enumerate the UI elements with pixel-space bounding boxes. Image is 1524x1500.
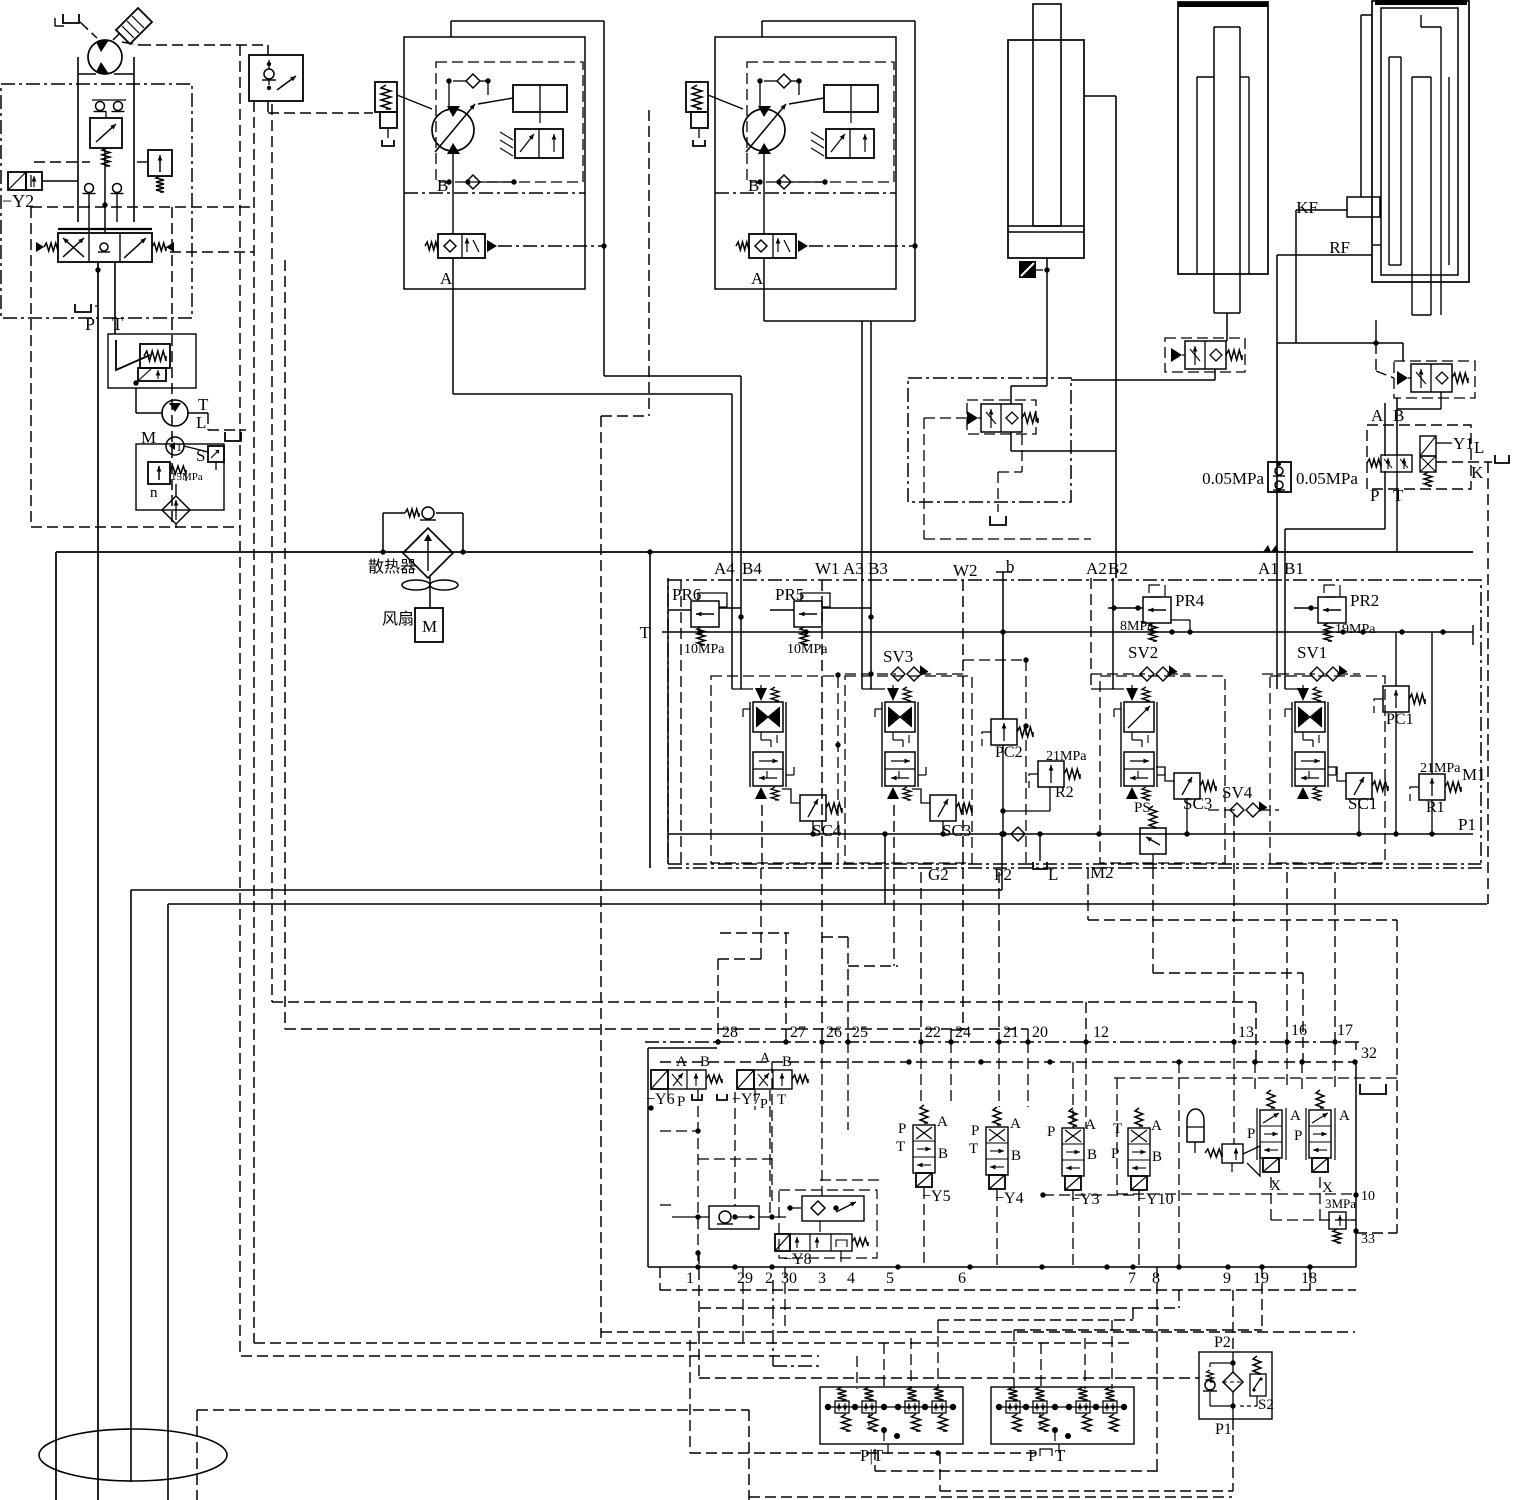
relief R2 xyxy=(1038,761,1064,787)
cylinder C2 body xyxy=(1178,2,1268,274)
svg-text:A2: A2 xyxy=(1086,559,1107,578)
junction dot topleft xyxy=(102,202,107,207)
directional valve DV1 body xyxy=(58,233,152,262)
drop port25 xyxy=(847,937,849,1041)
cylinder C3 stage1 xyxy=(1388,57,1390,265)
drop DV4 xyxy=(761,805,763,868)
wire to VB xyxy=(1402,343,1404,361)
cylinder C1 body xyxy=(1008,40,1084,258)
dashed trunk x285 xyxy=(284,260,286,1029)
pump control valve pump2 xyxy=(826,129,874,158)
svg-text:P: P xyxy=(677,1094,685,1110)
svg-text:B: B xyxy=(1393,406,1404,425)
svg-text:PS: PS xyxy=(1134,800,1151,816)
wire DV2 top feeds xyxy=(1091,688,1124,690)
valve VB under C3 xyxy=(1411,364,1452,392)
svg-text:0.05MPa: 0.05MPa xyxy=(1202,469,1264,488)
pump outer box pump2 xyxy=(715,37,896,289)
check valves lower pair xyxy=(85,184,94,193)
wire DV3 top feeds xyxy=(862,688,885,690)
solenoid valve Y2 xyxy=(8,172,26,190)
manifold bottom check xyxy=(1011,827,1025,841)
svg-text:10MPa: 10MPa xyxy=(684,642,725,657)
svg-text:L: L xyxy=(1048,865,1058,884)
manifold bottom line xyxy=(668,833,1473,835)
svg-text:T: T xyxy=(640,623,651,642)
svg-text:SV4: SV4 xyxy=(1222,783,1253,802)
svg-text:P: P xyxy=(1294,1128,1302,1144)
valve VC xyxy=(981,404,1022,432)
svg-text:M2: M2 xyxy=(1090,863,1114,882)
Y1 reducing valve xyxy=(1381,455,1412,472)
pump check dash-dot line pump1 xyxy=(498,245,604,247)
svg-text:P2: P2 xyxy=(994,865,1012,884)
svg-text:2: 2 xyxy=(765,1270,773,1287)
pilot filter cone xyxy=(116,340,150,370)
svg-text:M: M xyxy=(422,617,437,636)
svg-text:−Y2: −Y2 xyxy=(2,191,34,211)
svg-text:Y1: Y1 xyxy=(1453,434,1474,453)
svg-text:27: 27 xyxy=(790,1024,806,1041)
wire C1 to valve xyxy=(1046,270,1048,386)
svg-text:PR4: PR4 xyxy=(1175,591,1205,610)
wire P vertical long xyxy=(97,262,99,1500)
svg-text:P: P xyxy=(971,1123,979,1139)
svg-text:A3: A3 xyxy=(843,559,864,578)
DV1 spring left xyxy=(44,243,58,251)
gauge circle M xyxy=(166,437,184,455)
wire A1 column xyxy=(1276,343,1278,578)
svg-text:12: 12 xyxy=(1093,1024,1109,1041)
svg-text:P: P xyxy=(760,1097,768,1112)
Y7 wire xyxy=(754,1090,756,1110)
drop port16 xyxy=(1286,872,1288,1041)
svg-text:n: n xyxy=(150,485,158,501)
svg-text:B: B xyxy=(748,176,759,195)
svg-text:W2: W2 xyxy=(953,561,978,580)
pump check valve assembly pump1 xyxy=(438,234,485,258)
cylinder C2 rod xyxy=(1213,27,1215,313)
wire pump2 A down xyxy=(763,289,765,321)
S2 pressure switch xyxy=(1250,1374,1266,1396)
relief 15MPa xyxy=(148,462,170,484)
dash-dot box top-left xyxy=(1,84,192,318)
wire G2 column xyxy=(884,834,886,904)
pump stroke cylinder pump2 xyxy=(824,85,878,112)
svg-text:A: A xyxy=(1010,1116,1021,1132)
bottom dashed box xyxy=(197,1409,749,1411)
svg-text:A: A xyxy=(751,269,764,288)
dashed trunk x240 xyxy=(239,45,241,1356)
sensor box S xyxy=(208,446,224,462)
svg-text:KF: KF xyxy=(1296,198,1318,217)
cylinder C3 stage2 xyxy=(1411,77,1413,315)
junction P below DV1 xyxy=(95,267,100,272)
svg-text:5: 5 xyxy=(886,1270,894,1287)
wire L dashed xyxy=(188,412,208,414)
svg-text:SV3: SV3 xyxy=(883,647,913,666)
wire pump1 A down xyxy=(452,289,454,394)
port b tick xyxy=(996,571,1012,573)
bottom junction xyxy=(935,1450,940,1455)
manifold dash-dot box xyxy=(668,580,1481,868)
dashed DV1 to trunk xyxy=(170,251,254,253)
VC pilot dashes xyxy=(924,417,967,419)
spool valve DV2 xyxy=(1126,688,1138,701)
bottom dashed h y1471 xyxy=(875,1470,1161,1472)
svg-text:A4: A4 xyxy=(714,559,735,578)
wire pilot drain xyxy=(175,484,177,496)
relief PR6 xyxy=(691,601,719,627)
relief PR2 xyxy=(1318,597,1346,623)
wire pilot pump xyxy=(135,388,137,413)
pump stroke cylinder pump1 xyxy=(513,85,567,112)
pilot joystick cluster 1 xyxy=(820,1387,963,1444)
svg-text:9: 9 xyxy=(1223,1270,1231,1287)
svg-text:21MPa: 21MPa xyxy=(1046,749,1087,764)
svg-text:13: 13 xyxy=(1238,1024,1254,1041)
svg-text:3: 3 xyxy=(818,1270,826,1287)
wire RF xyxy=(1277,254,1372,256)
wire left vertical x56 xyxy=(55,552,57,1500)
svg-text:P: P xyxy=(898,1121,906,1137)
svg-text:21: 21 xyxy=(1003,1024,1019,1041)
wire Y1 to B1 xyxy=(1384,471,1386,529)
lower block bottom edge xyxy=(648,1266,1356,1268)
tank 32 xyxy=(1360,1084,1386,1094)
DV4 group dashed box xyxy=(711,676,838,863)
svg-text:P: P xyxy=(1111,1146,1119,1162)
lower block left edge xyxy=(647,1048,649,1267)
pilot relief spring box xyxy=(140,344,170,368)
svg-text:B4: B4 xyxy=(742,559,762,578)
Y6 wire xyxy=(667,1090,669,1098)
DV2 group dashed box xyxy=(1100,676,1225,863)
pilot valve Y4 xyxy=(993,1107,1001,1125)
dashed h y1332 xyxy=(601,1331,1355,1333)
svg-text:T: T xyxy=(896,1139,905,1155)
S2 wires xyxy=(1232,1290,1234,1352)
wire Y1 T xyxy=(1396,471,1398,552)
svg-text:B: B xyxy=(1152,1149,1162,1165)
wire dashed tank to motor xyxy=(80,22,97,38)
drop DV3 xyxy=(893,805,895,868)
manifold L drain xyxy=(1039,834,1041,861)
pilot joystick cluster 2 xyxy=(991,1387,1134,1444)
Y8 dashed box xyxy=(779,1190,877,1258)
wire DV4 top feeds xyxy=(732,688,753,690)
tank symbol VC xyxy=(990,516,1006,525)
svg-text:L: L xyxy=(1474,438,1484,457)
wire VA down xyxy=(1214,369,1216,380)
wire VB down xyxy=(1396,398,1398,456)
dashed bottom of left group xyxy=(31,526,240,528)
compensator SC3a xyxy=(930,795,956,821)
drop port22 xyxy=(920,872,922,1041)
svg-text:B: B xyxy=(782,1054,792,1070)
svg-text:SC4: SC4 xyxy=(812,821,842,840)
lower block inner dashes xyxy=(734,1092,736,1206)
wire x168 vertical xyxy=(167,904,169,1500)
pump top ports pump2 xyxy=(757,78,762,83)
manifold T line xyxy=(662,631,1473,633)
wire W2 column xyxy=(962,580,964,1030)
svg-text:8MPa: 8MPa xyxy=(1120,619,1154,634)
svg-text:B: B xyxy=(437,176,448,195)
svg-text:W1: W1 xyxy=(815,559,840,578)
DV1 left cell arrows xyxy=(63,238,84,257)
box1 check/throttle valve xyxy=(249,55,303,101)
svg-text:P: P xyxy=(85,314,95,334)
Y8 wires xyxy=(819,1221,821,1234)
manifold left solid edge xyxy=(667,578,669,862)
manifold bottom dashdot xyxy=(668,863,1481,865)
svg-text:A: A xyxy=(1339,1108,1350,1124)
svg-text:T: T xyxy=(969,1141,978,1157)
pump left spring actuator pump2 xyxy=(686,82,708,112)
radiator diamond xyxy=(403,528,453,578)
solenoid valve Y6 xyxy=(651,1070,668,1089)
wire VB dashes xyxy=(1375,343,1377,371)
svg-text:0.05MPa: 0.05MPa xyxy=(1296,469,1358,488)
relief valve RV-tl xyxy=(148,150,172,176)
wire VC feed xyxy=(1011,385,1047,387)
cylinder C3 shell2 xyxy=(1381,8,1458,275)
wire dashed motor to box1 xyxy=(122,42,140,45)
check valve pair upper xyxy=(96,102,105,111)
pilot valve Y3 xyxy=(1069,1108,1077,1126)
DV1 spring right xyxy=(152,243,166,251)
tank symbol top-left xyxy=(63,14,79,23)
svg-text:PR5: PR5 xyxy=(775,585,804,604)
dashed drops to cluster1 xyxy=(856,1356,858,1389)
accumulator xyxy=(1187,1109,1204,1142)
lower block top ports xyxy=(715,1039,720,1044)
svg-text:SV2: SV2 xyxy=(1128,643,1158,662)
pump lower ports pump1 xyxy=(446,179,451,184)
wire P2 column xyxy=(1001,834,1003,890)
svg-text:7: 7 xyxy=(1128,1270,1136,1287)
wire dashed box1 down xyxy=(267,101,269,113)
wire main return y552 xyxy=(56,551,1473,553)
S2 block box xyxy=(1199,1352,1272,1419)
spool valve DV1 xyxy=(1297,688,1309,701)
svg-text:22: 22 xyxy=(925,1024,941,1041)
svg-text:M1: M1 xyxy=(1462,765,1486,784)
svg-text:6: 6 xyxy=(958,1270,966,1287)
compensator SC4 xyxy=(800,795,826,821)
pump control valve pump1 xyxy=(515,129,563,158)
drop SV4 port13 xyxy=(1233,815,1235,1041)
svg-text:−Y3: −Y3 xyxy=(1071,1191,1100,1208)
lower block inner hdashes xyxy=(660,1130,698,1132)
svg-text:风扇: 风扇 xyxy=(382,610,414,628)
relief PR5 xyxy=(794,601,822,627)
tilted actuator on motor xyxy=(116,8,152,44)
compensator PC2 xyxy=(991,719,1017,745)
radiator bypass xyxy=(382,513,384,552)
svg-text:R2: R2 xyxy=(1055,784,1074,801)
svg-text:15MPa: 15MPa xyxy=(171,471,203,483)
cylinder C1 damper box xyxy=(1019,261,1036,278)
wire x1116 long xyxy=(1115,96,1117,578)
svg-text:A: A xyxy=(1290,1108,1301,1124)
svg-text:T: T xyxy=(198,395,209,414)
svg-text:−Y7: −Y7 xyxy=(732,1091,761,1108)
lower bus dots xyxy=(906,1059,911,1064)
wire A2 column xyxy=(1090,578,1092,689)
svg-text:A: A xyxy=(1151,1118,1162,1134)
pilot valve X1 xyxy=(1267,1090,1275,1108)
svg-text:28: 28 xyxy=(722,1024,738,1041)
svg-text:B: B xyxy=(938,1146,948,1162)
motor M pilot circle xyxy=(88,40,122,74)
drop PS xyxy=(1152,868,1154,973)
svg-text:24: 24 xyxy=(955,1024,971,1041)
dashed below ports xyxy=(742,1267,744,1343)
svg-text:K: K xyxy=(1471,463,1484,482)
dashed below block 3 xyxy=(938,1319,1133,1321)
dashed inner x681 xyxy=(680,580,682,868)
wire VC drain xyxy=(1010,432,1012,451)
svg-text:PC1: PC1 xyxy=(1386,711,1414,728)
relief PR4 xyxy=(1143,597,1171,623)
pump A port line pump2 xyxy=(763,151,765,234)
lower block top bus xyxy=(645,1041,1360,1043)
pump top line pump2 xyxy=(762,20,915,22)
drop port20 xyxy=(1027,1029,1029,1041)
cylinder C1 rod xyxy=(1033,4,1061,226)
svg-text:3MPa: 3MPa xyxy=(1325,1196,1356,1211)
svg-text:26: 26 xyxy=(826,1024,842,1041)
svg-text:R1: R1 xyxy=(1426,799,1445,816)
lower block dashed bus xyxy=(660,1061,1355,1063)
compensator SC3b xyxy=(1174,773,1200,799)
flow control valve xyxy=(90,118,122,148)
svg-text:P1: P1 xyxy=(1458,815,1476,834)
svg-text:8: 8 xyxy=(1152,1270,1160,1287)
fan blades xyxy=(402,580,430,590)
dashed h y1002 xyxy=(272,1001,1256,1003)
cylinder C1 piston lines xyxy=(1008,225,1084,227)
DV1 group dashed box xyxy=(1270,676,1385,863)
wire y343 header xyxy=(1277,342,1403,344)
pump check dash-dot line pump2 xyxy=(809,245,915,247)
svg-text:b: b xyxy=(1006,557,1015,576)
svg-text:T: T xyxy=(112,314,123,334)
svg-text:P1: P1 xyxy=(1215,1421,1232,1438)
drop P2 xyxy=(998,872,1000,1041)
spool valve DV4 xyxy=(755,688,767,701)
svg-text:10: 10 xyxy=(1361,1189,1375,1204)
cylinder C3 outer xyxy=(1372,1,1469,282)
svg-text:A: A xyxy=(937,1114,948,1130)
wire dashed box1 to pump1 spring xyxy=(268,112,373,114)
dashed box left edge xyxy=(30,207,32,527)
svg-text:RF: RF xyxy=(1329,238,1350,257)
tank symbol L xyxy=(225,432,241,441)
port 10 xyxy=(1353,1192,1358,1197)
dashed h y1378 xyxy=(699,1377,1199,1379)
dashed h y1343 xyxy=(254,1342,1133,1344)
spring under flow valve xyxy=(102,148,110,166)
A1 mark xyxy=(1263,545,1271,552)
wire B1 into DV1 xyxy=(1284,578,1286,689)
pump casing verticals xyxy=(77,57,79,222)
pump separation dash-dot pump1 xyxy=(404,192,585,194)
right group dashed box xyxy=(1114,1077,1397,1079)
fan motor box xyxy=(415,608,443,642)
tank ellipse bottom-left xyxy=(39,1429,227,1481)
wire B2 column xyxy=(1112,578,1114,689)
svg-text:PR6: PR6 xyxy=(672,585,701,604)
svg-text:25: 25 xyxy=(852,1024,868,1041)
svg-text:19: 19 xyxy=(1253,1270,1269,1287)
svg-text:A: A xyxy=(676,1054,687,1070)
wire C1 right xyxy=(1084,95,1116,97)
check valve CK1 xyxy=(709,1206,759,1229)
pump outer box pump1 xyxy=(404,37,585,289)
bottom dashed h y1497 xyxy=(749,1496,1232,1498)
svg-text:PR2: PR2 xyxy=(1350,591,1379,610)
svg-text:P: P xyxy=(1028,1446,1037,1465)
svg-text:30: 30 xyxy=(781,1270,797,1287)
dash-dot bottom left col xyxy=(772,1280,774,1366)
wire dashed left xyxy=(34,161,90,163)
svg-text:A: A xyxy=(440,269,453,288)
tank bracket near P xyxy=(75,304,91,312)
valve PS xyxy=(1140,828,1166,854)
dashed below block 4 xyxy=(1014,1329,1262,1331)
svg-text:21MPa: 21MPa xyxy=(1420,761,1461,776)
svg-text:T: T xyxy=(1055,1446,1066,1465)
svg-text:B3: B3 xyxy=(868,559,888,578)
svg-text:SC1: SC1 xyxy=(1348,794,1377,813)
svg-text:G2: G2 xyxy=(928,865,949,884)
pump top ports pump1 xyxy=(446,78,451,83)
cylinder C2 shoulders xyxy=(1196,77,1198,274)
lower block right edge xyxy=(1355,1062,1357,1267)
wire C2 rod down xyxy=(1226,313,1228,341)
bottom dashed h y1491 xyxy=(940,1490,1233,1492)
svg-text:16: 16 xyxy=(1291,1022,1307,1039)
svg-text:P2: P2 xyxy=(1214,1334,1231,1351)
pump lower ports pump2 xyxy=(757,179,762,184)
solenoid valve Y7 xyxy=(737,1070,754,1089)
pilot valve Y10 xyxy=(1135,1108,1143,1126)
svg-text:B2: B2 xyxy=(1108,559,1128,578)
wire y890 horizontal xyxy=(131,889,1002,891)
svg-text:B1: B1 xyxy=(1284,559,1304,578)
svg-text:19MPa: 19MPa xyxy=(1335,622,1376,637)
dual check 0.05MPa xyxy=(1268,462,1291,492)
wire x131 vertical xyxy=(130,890,132,1482)
svg-text:−Y4: −Y4 xyxy=(995,1190,1024,1207)
svg-text:P: P xyxy=(1247,1126,1255,1142)
compensator SC1 xyxy=(1346,773,1372,799)
svg-text:−Y5: −Y5 xyxy=(922,1188,951,1205)
DV3 group dashed box xyxy=(845,676,972,863)
svg-text:29: 29 xyxy=(737,1270,753,1287)
lower block bottom ports xyxy=(695,1264,700,1269)
svg-text:33: 33 xyxy=(1361,1232,1375,1247)
pilot lower box xyxy=(136,444,224,510)
dashed trunk x254 xyxy=(253,101,255,1343)
dashed below block 1 xyxy=(660,1289,1356,1291)
check valve CK2 (over Y8) xyxy=(802,1196,864,1221)
pump left spring actuator pump1 xyxy=(375,82,397,112)
S2 filter diamond xyxy=(1223,1372,1243,1392)
